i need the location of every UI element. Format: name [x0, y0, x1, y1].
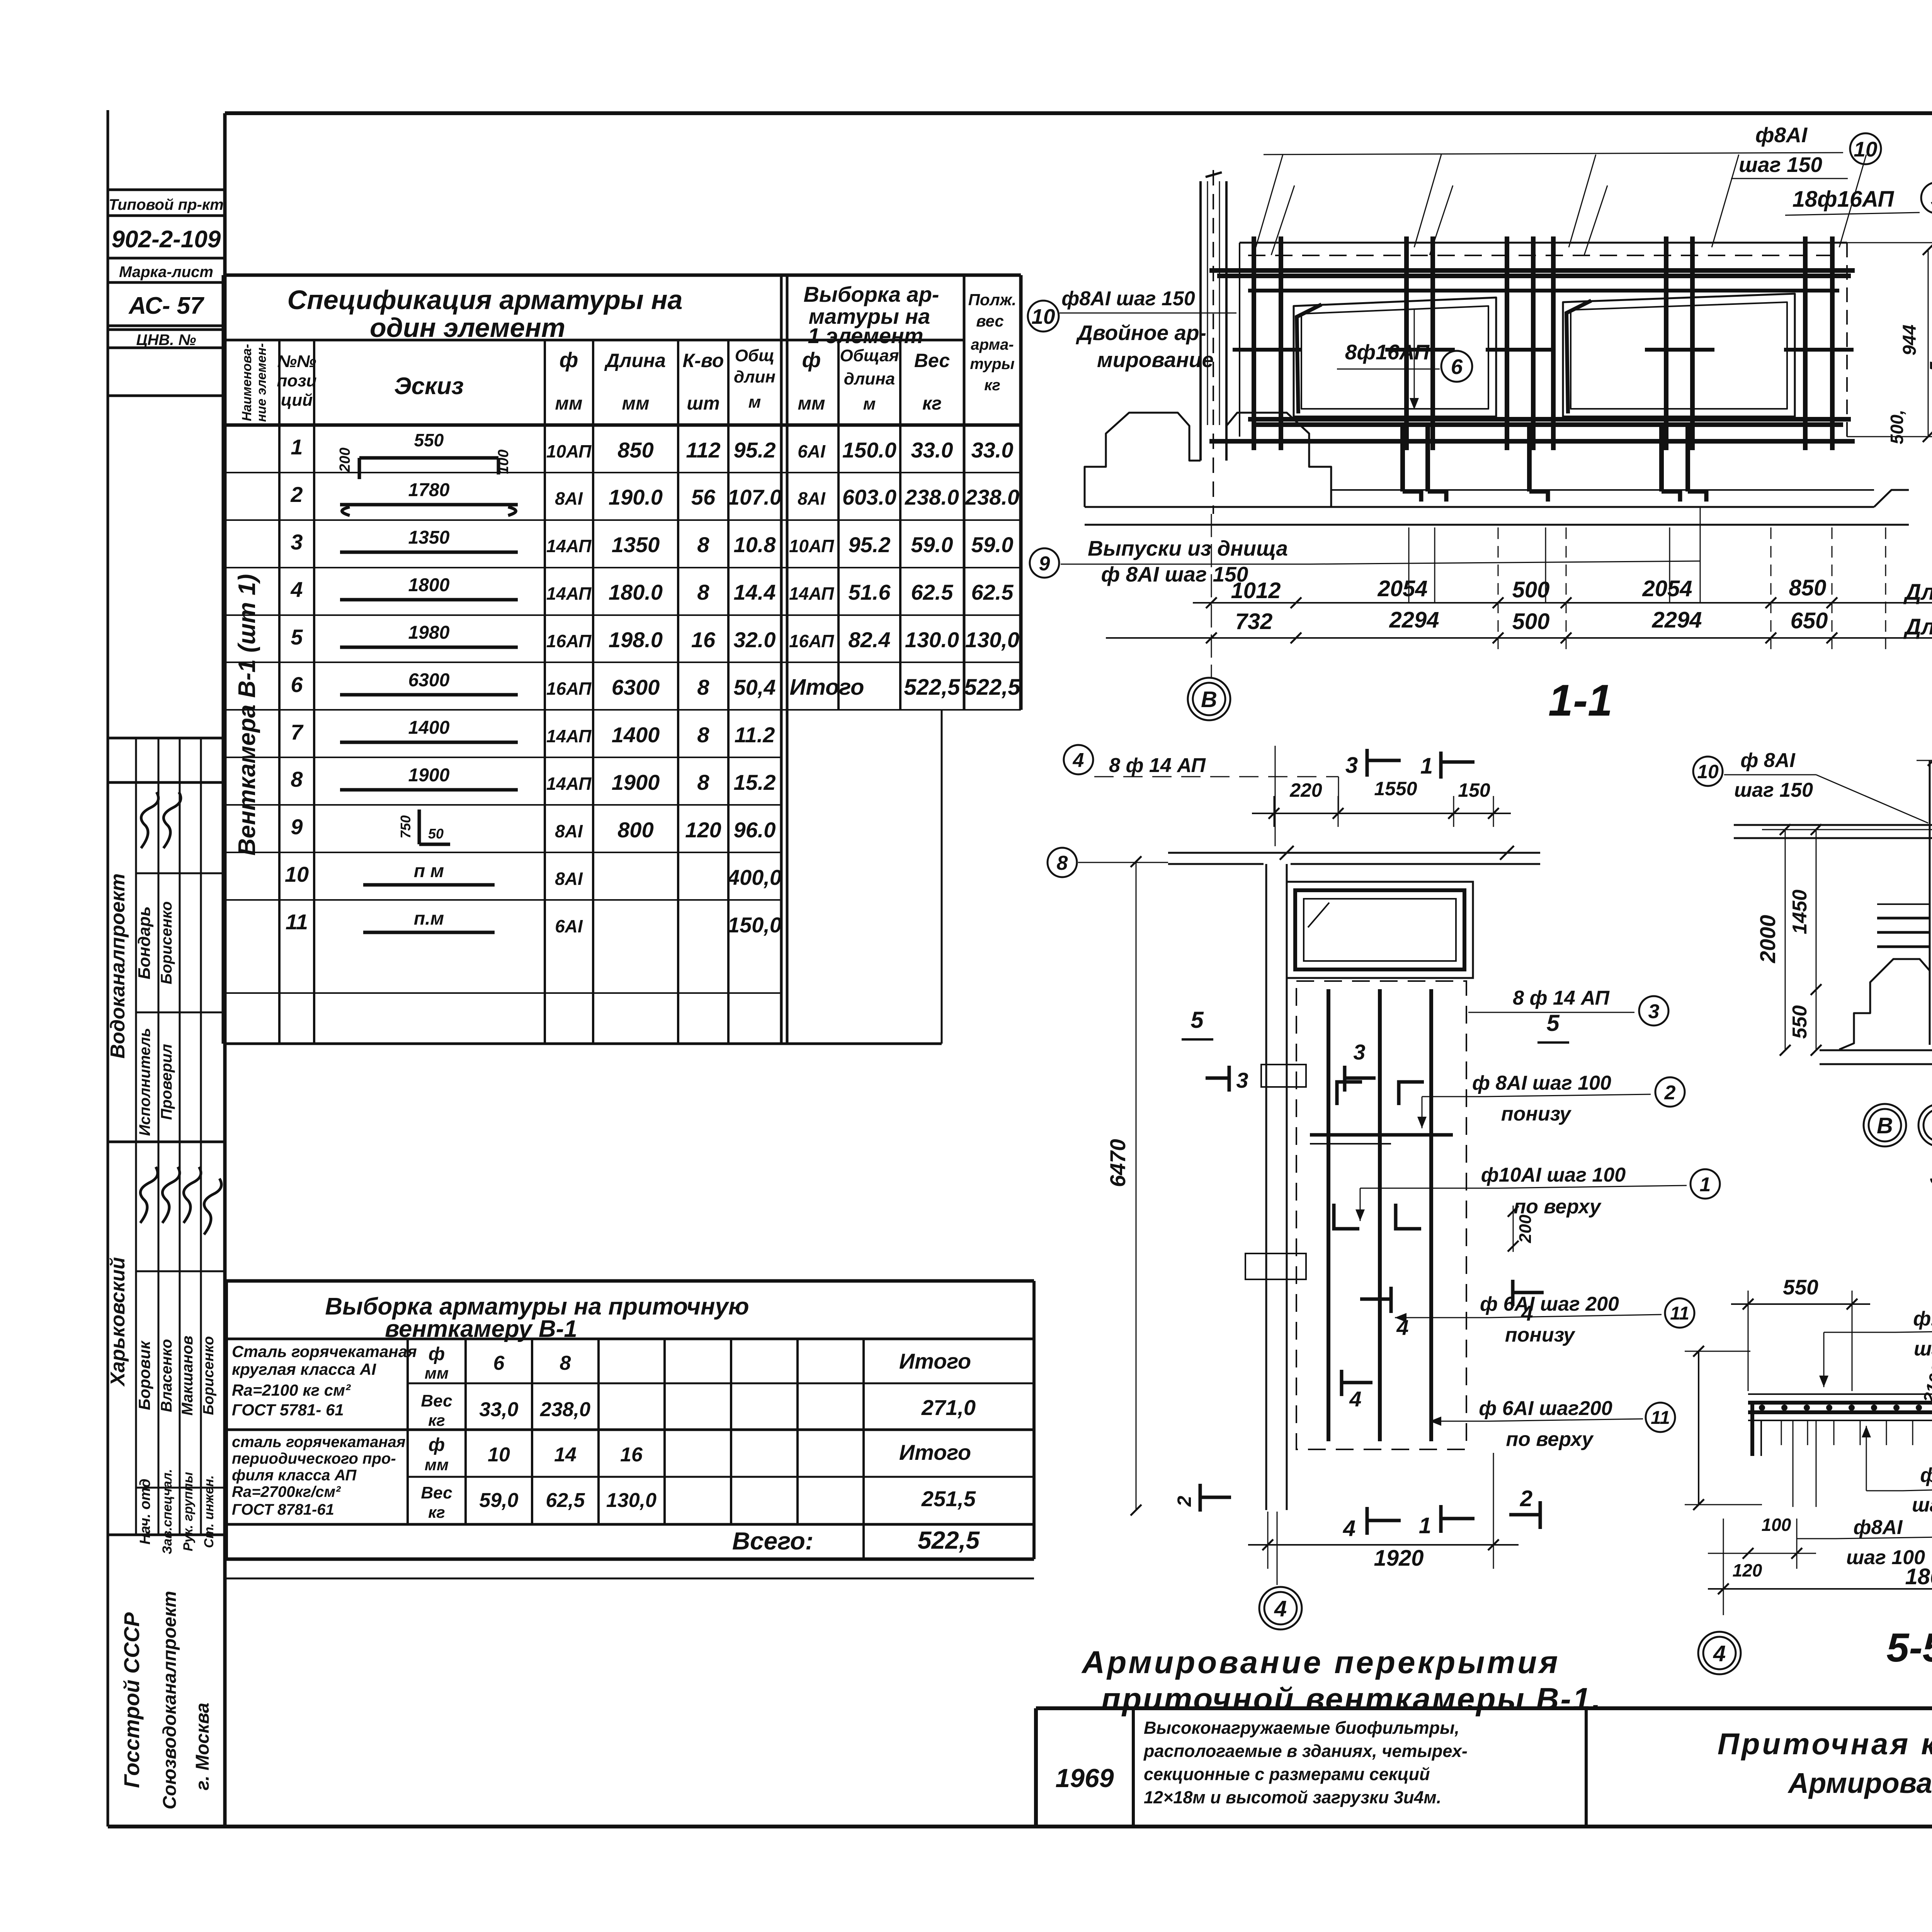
- svg-text:2: 2: [1664, 1082, 1676, 1104]
- svg-text:п.м: п.м: [414, 908, 444, 929]
- svg-text:8АІ: 8АІ: [555, 869, 583, 889]
- svg-text:10: 10: [1031, 304, 1055, 328]
- svg-text:Выборка ар-: Выборка ар-: [803, 282, 939, 306]
- svg-text:периодического про-: периодического про-: [232, 1450, 396, 1467]
- svg-text:4: 4: [1343, 1516, 1355, 1541]
- svg-text:550: 550: [1783, 1275, 1818, 1299]
- svg-text:150: 150: [1458, 779, 1490, 801]
- svg-text:550: 550: [414, 430, 444, 450]
- svg-text:12×18м и высотой загрузки 3: 12×18м и высотой загрузки 3и4м.: [1144, 1787, 1441, 1807]
- svg-text:62.5: 62.5: [971, 580, 1014, 604]
- svg-text:2: 2: [1520, 1486, 1532, 1511]
- svg-text:ф: ф: [802, 348, 821, 372]
- svg-text:по верху: по верху: [1506, 1428, 1594, 1451]
- svg-text:95.2: 95.2: [849, 532, 891, 557]
- svg-text:1400: 1400: [408, 718, 450, 738]
- svg-text:3: 3: [1345, 753, 1358, 778]
- svg-text:8: 8: [697, 770, 709, 794]
- svg-text:96.0: 96.0: [734, 818, 776, 842]
- svg-text:10: 10: [1854, 137, 1878, 161]
- svg-text:Ra=2100 кг см²: Ra=2100 кг см²: [232, 1381, 351, 1399]
- svg-text:филя класса АП: филя класса АП: [232, 1467, 357, 1484]
- svg-text:п м: п м: [414, 861, 444, 881]
- svg-text:шаг 100: шаг 100: [1914, 1338, 1932, 1360]
- svg-text:59,0: 59,0: [479, 1489, 518, 1512]
- svg-text:ф10АП: ф10АП: [1913, 1308, 1932, 1330]
- svg-text:50,4: 50,4: [734, 675, 776, 699]
- svg-text:15.2: 15.2: [734, 770, 776, 794]
- svg-text:1800: 1800: [408, 575, 450, 595]
- svg-text:238.0: 238.0: [905, 485, 959, 509]
- svg-text:В: В: [1201, 687, 1217, 712]
- svg-text:11: 11: [1651, 1408, 1670, 1428]
- svg-text:33.0: 33.0: [911, 438, 953, 462]
- svg-text:Макшанов: Макшанов: [179, 1336, 196, 1416]
- svg-text:6АІ: 6АІ: [798, 441, 826, 461]
- svg-text:6300: 6300: [408, 670, 450, 690]
- svg-text:62,5: 62,5: [546, 1489, 585, 1512]
- svg-text:8АІ: 8АІ: [798, 488, 826, 509]
- svg-text:1980: 1980: [408, 622, 450, 643]
- svg-text:1920: 1920: [1374, 1546, 1423, 1571]
- svg-text:522,5: 522,5: [918, 1526, 980, 1554]
- svg-text:10АП: 10АП: [789, 536, 834, 556]
- svg-text:150,0: 150,0: [728, 913, 782, 937]
- svg-text:Высоконагружаемые биофильтры,: Высоконагружаемые биофильтры,: [1144, 1718, 1459, 1738]
- svg-text:9: 9: [291, 815, 303, 839]
- svg-text:16АП: 16АП: [546, 679, 592, 699]
- svg-text:6: 6: [1451, 355, 1463, 379]
- svg-text:16: 16: [691, 628, 716, 652]
- svg-text:2054: 2054: [1642, 576, 1692, 601]
- svg-text:11: 11: [286, 910, 308, 934]
- svg-text:14.4: 14.4: [734, 580, 776, 604]
- svg-text:Ст. инжен.: Ст. инжен.: [202, 1475, 216, 1548]
- svg-text:3-3: 3-3: [1930, 1149, 1932, 1194]
- svg-text:Проверил: Проверил: [158, 1044, 175, 1120]
- svg-text:6АІ: 6АІ: [555, 916, 583, 936]
- svg-text:кг: кг: [984, 377, 1000, 394]
- svg-text:130,0: 130,0: [606, 1489, 656, 1512]
- svg-text:1450: 1450: [1789, 889, 1811, 934]
- svg-text:распологаемые в зданиях, четы: распологаемые в зданиях, четырех-: [1143, 1741, 1468, 1761]
- svg-text:ф8АІ: ф8АІ: [1755, 123, 1808, 147]
- svg-text:ф 8АІ: ф 8АІ: [1740, 749, 1796, 772]
- svg-text:шаг 200: шаг 200: [1912, 1494, 1932, 1516]
- svg-text:Длина: Длина: [604, 350, 666, 371]
- svg-text:2000: 2000: [1755, 915, 1780, 964]
- svg-text:Наименова-: Наименова-: [240, 344, 254, 421]
- svg-text:120: 120: [1733, 1560, 1762, 1580]
- svg-text:7: 7: [291, 720, 304, 744]
- svg-text:8: 8: [697, 723, 709, 747]
- svg-text:4: 4: [1274, 1596, 1287, 1621]
- svg-text:ф8АІ: ф8АІ: [1854, 1516, 1903, 1539]
- svg-text:120: 120: [685, 818, 721, 842]
- svg-text:Исполнитель: Исполнитель: [136, 1028, 153, 1136]
- svg-text:2294: 2294: [1389, 607, 1439, 633]
- svg-text:750: 750: [398, 815, 413, 838]
- svg-text:95.2: 95.2: [734, 438, 776, 462]
- svg-text:220: 220: [1289, 779, 1322, 801]
- svg-text:33.0: 33.0: [971, 438, 1014, 462]
- svg-text:1900: 1900: [408, 765, 450, 786]
- svg-text:приточной венткамеры В-1.: приточной венткамеры В-1.: [1101, 1682, 1602, 1717]
- svg-text:59.0: 59.0: [971, 532, 1014, 557]
- svg-text:6: 6: [493, 1352, 505, 1374]
- svg-text:мм: мм: [622, 393, 649, 414]
- svg-text:круглая класса АІ: круглая класса АІ: [232, 1360, 376, 1378]
- svg-text:ЦНВ. №: ЦНВ. №: [136, 332, 196, 349]
- svg-text:10: 10: [488, 1444, 510, 1466]
- svg-text:500: 500: [1512, 609, 1550, 634]
- svg-text:180.0: 180.0: [609, 580, 663, 604]
- svg-text:1-1: 1-1: [1548, 676, 1612, 725]
- svg-text:8АІ: 8АІ: [555, 821, 583, 841]
- svg-text:8 ф 14 АП: 8 ф 14 АП: [1109, 754, 1206, 777]
- svg-text:8: 8: [291, 767, 303, 791]
- svg-text:венткамеру В-1: венткамеру В-1: [385, 1316, 577, 1342]
- svg-text:Выпуски из днища: Выпуски из днища: [1088, 536, 1288, 560]
- svg-text:850: 850: [1789, 575, 1827, 600]
- svg-text:3: 3: [291, 530, 303, 554]
- svg-text:Вес: Вес: [421, 1391, 452, 1410]
- svg-text:6: 6: [291, 672, 303, 697]
- svg-text:Итого: Итого: [899, 1349, 971, 1373]
- svg-text:522,5: 522,5: [964, 675, 1020, 700]
- svg-text:2: 2: [290, 482, 303, 507]
- svg-text:Бондарь: Бондарь: [135, 906, 154, 979]
- svg-text:ф: ф: [429, 1435, 445, 1455]
- svg-text:ф8АІ шаг 150: ф8АІ шаг 150: [1061, 287, 1195, 310]
- svg-text:522,5: 522,5: [904, 675, 960, 700]
- svg-text:Итого: Итого: [790, 675, 864, 700]
- svg-text:603.0: 603.0: [842, 485, 896, 509]
- svg-text:14: 14: [554, 1444, 577, 1466]
- svg-text:14АП: 14АП: [546, 774, 592, 794]
- svg-text:500: 500: [1512, 577, 1550, 602]
- svg-text:9: 9: [1039, 553, 1050, 575]
- svg-text:Спецификация арматуры на: Спецификация арматуры на: [287, 285, 683, 315]
- svg-text:Сталь горячекатаная: Сталь горячекатаная: [232, 1342, 417, 1361]
- svg-text:800: 800: [617, 818, 653, 842]
- svg-text:секционные с размерами секций: секционные с размерами секций: [1144, 1764, 1430, 1784]
- svg-text:АС- 57: АС- 57: [128, 293, 204, 319]
- svg-text:4: 4: [1349, 1387, 1361, 1411]
- svg-text:112: 112: [686, 438, 720, 462]
- svg-text:56: 56: [691, 485, 716, 509]
- svg-text:мирование: мирование: [1097, 348, 1214, 372]
- svg-text:Для пара: Для пара: [1903, 580, 1932, 605]
- svg-text:6300: 6300: [612, 675, 660, 699]
- svg-text:длина: длина: [844, 369, 895, 388]
- svg-text:Приточная камера В-1: Приточная камера В-1: [1718, 1727, 1932, 1761]
- svg-text:10АП: 10АП: [546, 441, 592, 461]
- svg-text:100: 100: [495, 449, 512, 474]
- svg-text:вес: вес: [976, 312, 1004, 330]
- svg-text:16АП: 16АП: [546, 631, 592, 651]
- svg-text:Армирование.: Армирование.: [1787, 1767, 1932, 1799]
- svg-text:длин: длин: [734, 367, 776, 386]
- svg-text:Боровик: Боровик: [135, 1340, 153, 1410]
- svg-text:5: 5: [291, 625, 303, 649]
- svg-text:кг: кг: [428, 1411, 445, 1429]
- svg-text:400,0: 400,0: [727, 865, 782, 889]
- svg-text:271,0: 271,0: [921, 1395, 976, 1420]
- svg-text:14АП: 14АП: [546, 583, 592, 604]
- svg-text:1400: 1400: [612, 723, 660, 747]
- svg-text:понизу: понизу: [1505, 1324, 1576, 1346]
- svg-text:238.0: 238.0: [965, 485, 1019, 509]
- svg-text:м: м: [748, 393, 761, 412]
- svg-text:1780: 1780: [408, 480, 450, 500]
- svg-text:4: 4: [1713, 1641, 1726, 1666]
- svg-text:Вес: Вес: [914, 350, 950, 371]
- svg-text:сталь горячекатаная: сталь горячекатаная: [232, 1434, 405, 1451]
- svg-text:130.0: 130.0: [905, 628, 959, 652]
- svg-text:арма-: арма-: [971, 336, 1014, 353]
- svg-text:ГОСТ 8781-61: ГОСТ 8781-61: [232, 1501, 334, 1518]
- svg-text:Борисенко: Борисенко: [201, 1336, 217, 1415]
- svg-text:1: 1: [291, 435, 303, 459]
- svg-text:ф10АІ шаг 100: ф10АІ шаг 100: [1481, 1164, 1626, 1186]
- svg-text:ф: ф: [429, 1344, 445, 1364]
- svg-text:10: 10: [1697, 761, 1719, 782]
- svg-text:732: 732: [1235, 609, 1273, 634]
- svg-text:кг: кг: [428, 1503, 445, 1521]
- svg-text:ф 6АІ: ф 6АІ: [1920, 1464, 1932, 1486]
- svg-text:5: 5: [1546, 1010, 1560, 1036]
- svg-text:32.0: 32.0: [734, 628, 776, 652]
- svg-text:1: 1: [1419, 1513, 1431, 1538]
- svg-text:Эскиз: Эскиз: [394, 373, 464, 400]
- svg-text:130,0: 130,0: [965, 628, 1019, 652]
- svg-text:мм: мм: [425, 1364, 449, 1382]
- svg-text:650: 650: [1791, 608, 1828, 633]
- svg-text:Власенко: Власенко: [158, 1339, 175, 1412]
- svg-text:190.0: 190.0: [609, 485, 663, 509]
- svg-text:Типовой пр-кт: Типовой пр-кт: [109, 196, 223, 213]
- svg-text:14АП: 14АП: [546, 536, 592, 556]
- svg-text:100: 100: [1762, 1515, 1791, 1535]
- svg-text:4: 4: [290, 577, 303, 602]
- svg-text:3: 3: [1648, 1000, 1660, 1023]
- svg-text:Водоканалпроект: Водоканалпроект: [107, 873, 129, 1058]
- svg-text:1550: 1550: [1374, 778, 1417, 799]
- svg-text:8: 8: [697, 532, 709, 557]
- svg-text:мм: мм: [425, 1456, 449, 1474]
- svg-text:Для воды: Для воды: [1903, 614, 1932, 639]
- svg-text:10.8: 10.8: [734, 532, 776, 557]
- svg-text:850: 850: [617, 438, 653, 462]
- svg-text:Вес: Вес: [421, 1483, 452, 1502]
- svg-text:Венткамера В-1 (шт 1): Венткамера В-1 (шт 1): [234, 574, 260, 856]
- svg-text:1: 1: [1420, 753, 1433, 779]
- svg-text:11: 11: [1670, 1303, 1689, 1324]
- svg-text:1: 1: [1700, 1173, 1711, 1196]
- svg-text:5-5: 5-5: [1886, 1625, 1932, 1670]
- svg-text:51.6: 51.6: [849, 580, 891, 604]
- svg-text:200: 200: [1516, 1214, 1535, 1243]
- svg-text:1969: 1969: [1055, 1764, 1114, 1793]
- svg-text:мм: мм: [555, 393, 582, 414]
- svg-text:18ф16АП: 18ф16АП: [1793, 187, 1895, 212]
- svg-text:Харьковский: Харьковский: [107, 1257, 129, 1387]
- svg-text:один элемент: один элемент: [370, 313, 565, 343]
- svg-text:Марка-лист: Марка-лист: [119, 264, 213, 281]
- svg-text:ф 8АІ шаг 100: ф 8АІ шаг 100: [1472, 1072, 1611, 1094]
- svg-text:ф 6АІ шаг200: ф 6АІ шаг200: [1479, 1397, 1612, 1420]
- svg-text:2: 2: [1173, 1496, 1195, 1507]
- svg-text:200: 200: [337, 447, 353, 472]
- svg-text:251,5: 251,5: [921, 1486, 976, 1511]
- svg-text:5: 5: [1190, 1007, 1204, 1033]
- svg-text:ций: ций: [281, 391, 313, 410]
- svg-text:8: 8: [697, 580, 709, 604]
- svg-text:м: м: [863, 395, 876, 413]
- svg-text:198.0: 198.0: [609, 628, 663, 652]
- svg-text:В: В: [1877, 1113, 1893, 1138]
- svg-text:8АІ: 8АІ: [555, 488, 583, 509]
- svg-text:944: 944: [1900, 325, 1920, 355]
- svg-text:8: 8: [697, 675, 709, 699]
- svg-text:Итого: Итого: [899, 1440, 971, 1464]
- svg-text:ф: ф: [560, 348, 578, 372]
- svg-text:1350: 1350: [612, 532, 660, 557]
- svg-text:Госстрой СССР: Госстрой СССР: [119, 1612, 144, 1788]
- svg-text:Полж.: Полж.: [968, 291, 1017, 309]
- svg-text:8ф16АП: 8ф16АП: [1345, 340, 1430, 364]
- svg-text:Общая: Общая: [840, 346, 899, 365]
- svg-text:59.0: 59.0: [911, 532, 953, 557]
- svg-text:10: 10: [285, 862, 309, 886]
- svg-text:4: 4: [1073, 749, 1084, 772]
- svg-text:107.0: 107.0: [728, 485, 782, 509]
- svg-text:8: 8: [560, 1352, 571, 1374]
- svg-text:2054: 2054: [1377, 576, 1427, 601]
- svg-text:Ra=2700кг/см²: Ra=2700кг/см²: [232, 1483, 341, 1500]
- svg-text:8 ф 14 АП: 8 ф 14 АП: [1513, 987, 1610, 1009]
- svg-text:Для пара: Для пара: [1927, 290, 1932, 376]
- svg-text:ние элемен-: ние элемен-: [254, 343, 269, 422]
- svg-text:8: 8: [1057, 852, 1068, 874]
- svg-text:Борисенко: Борисенко: [158, 901, 175, 985]
- svg-text:50: 50: [428, 826, 444, 842]
- svg-text:6470: 6470: [1105, 1139, 1130, 1187]
- svg-text:Всего:: Всего:: [732, 1527, 813, 1555]
- svg-text:шт: шт: [687, 393, 719, 414]
- svg-text:туры: туры: [970, 355, 1014, 372]
- svg-text:16АП: 16АП: [789, 631, 834, 651]
- svg-text:шаг 150: шаг 150: [1739, 153, 1822, 177]
- svg-text:550: 550: [1789, 1005, 1811, 1039]
- svg-text:2294: 2294: [1651, 607, 1702, 633]
- svg-text:ф 8АІ шаг 150: ф 8АІ шаг 150: [1101, 562, 1248, 586]
- svg-text:1900: 1900: [612, 770, 660, 794]
- svg-text:238,0: 238,0: [540, 1398, 590, 1421]
- svg-text:Двойное ар-: Двойное ар-: [1076, 321, 1206, 345]
- svg-text:Рук. группы: Рук. группы: [181, 1472, 196, 1551]
- svg-text:500,: 500,: [1887, 410, 1907, 444]
- svg-text:Армирование перекрытия: Армирование перекрытия: [1081, 1645, 1560, 1680]
- svg-text:62.5: 62.5: [911, 580, 954, 604]
- svg-text:понизу: понизу: [1501, 1103, 1572, 1125]
- svg-text:шаг 150: шаг 150: [1734, 779, 1813, 801]
- svg-text:14АП: 14АП: [546, 726, 592, 746]
- svg-text:Союзводоканалпроект: Союзводоканалпроект: [160, 1591, 180, 1810]
- svg-text:3: 3: [1236, 1068, 1248, 1092]
- svg-text:г. Москва: г. Москва: [192, 1702, 213, 1790]
- svg-text:Общ: Общ: [735, 346, 775, 365]
- svg-text:Нач. отд: Нач. отд: [137, 1479, 153, 1544]
- svg-text:1 элемент: 1 элемент: [808, 323, 923, 348]
- svg-text:кг: кг: [922, 393, 942, 414]
- svg-text:К-во: К-во: [683, 350, 724, 371]
- svg-text:14АП: 14АП: [789, 583, 834, 604]
- svg-text:ГОСТ 5781- 61: ГОСТ 5781- 61: [232, 1401, 344, 1419]
- svg-text:1350: 1350: [408, 527, 450, 548]
- svg-text:ф 6АІ шаг 200: ф 6АІ шаг 200: [1480, 1293, 1619, 1315]
- svg-text:33,0: 33,0: [479, 1398, 518, 1421]
- svg-text:150.0: 150.0: [842, 438, 896, 462]
- svg-text:902-2-109: 902-2-109: [112, 226, 221, 253]
- svg-text:16: 16: [620, 1444, 643, 1466]
- svg-text:пози: пози: [277, 371, 316, 390]
- svg-text:№№: №№: [277, 352, 316, 371]
- svg-text:3: 3: [1353, 1040, 1365, 1064]
- svg-text:11.2: 11.2: [735, 723, 775, 747]
- svg-text:Зав.спецчал.: Зав.спецчал.: [160, 1469, 175, 1554]
- svg-text:мм: мм: [798, 393, 825, 414]
- svg-text:82.4: 82.4: [849, 628, 891, 652]
- svg-text:1800: 1800: [1905, 1564, 1932, 1589]
